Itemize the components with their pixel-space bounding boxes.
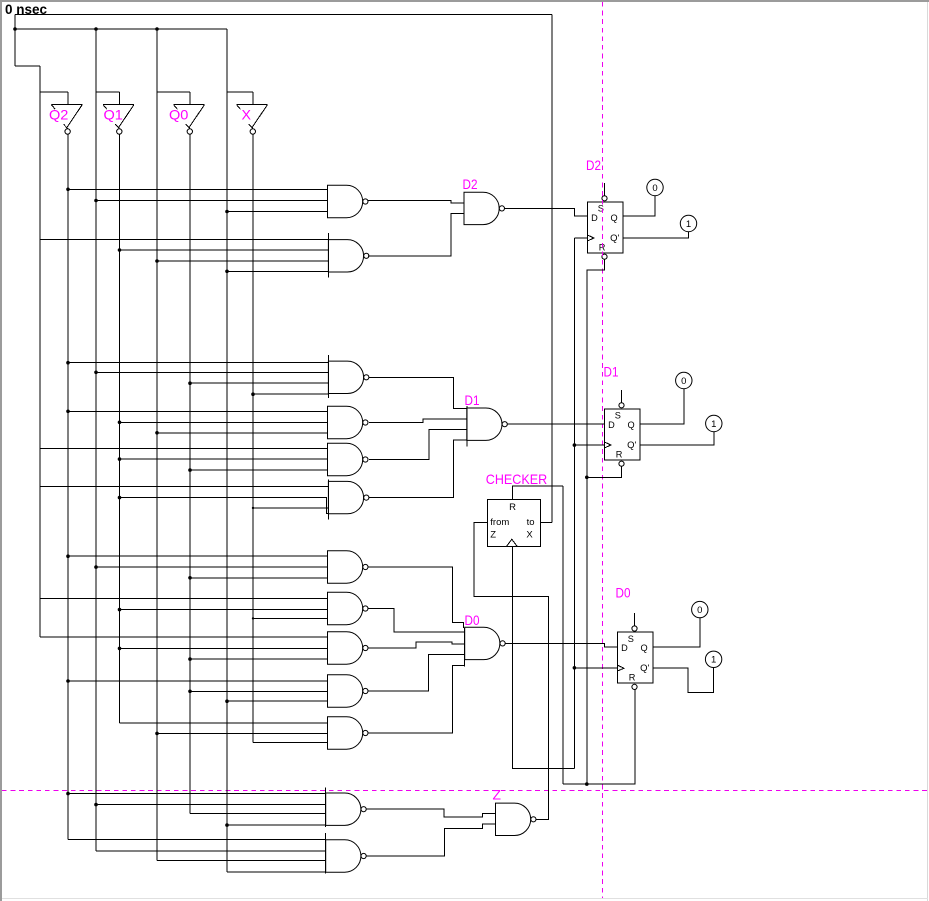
svg-text:R: R — [509, 502, 516, 513]
wire C2 input 1 — [40, 597, 328, 599]
junction — [252, 507, 254, 509]
svg-text:0: 0 — [697, 605, 702, 616]
wire rail X (x227) — [226, 29, 228, 872]
wire flip-flop D0 R down to reset net — [563, 689, 635, 784]
junction — [155, 259, 159, 263]
wire Z1 input 2 — [96, 804, 326, 806]
wire B3 input 2 — [120, 458, 328, 460]
junction — [94, 565, 98, 569]
svg-text:S: S — [628, 634, 634, 644]
NAND gate C1 (D0 group, 3-input) — [328, 551, 369, 583]
svg-text:D2: D2 — [586, 157, 601, 173]
svg-text:to: to — [527, 517, 535, 528]
junction — [188, 657, 192, 661]
NAND gate B2 (D1 group, 3-input) — [328, 406, 369, 438]
svg-text:D0: D0 — [616, 584, 631, 600]
wire Z1 input 4 — [227, 824, 326, 826]
NAND gate B4 (D1 group, 4-input) — [328, 480, 369, 520]
junction — [94, 199, 98, 203]
junction — [225, 699, 229, 703]
wire C4 input 3 — [227, 700, 328, 702]
wire B2 input 3 — [157, 432, 328, 434]
svg-text:X: X — [526, 530, 533, 541]
wire A1 input 3 — [227, 211, 328, 213]
svg-text:Q': Q' — [627, 440, 636, 451]
junction — [66, 554, 70, 558]
svg-text:Q: Q — [611, 213, 618, 223]
D flip-flop D0 — [618, 613, 654, 689]
horizontal dashed cursor line — [2, 790, 927, 792]
junction — [188, 690, 192, 694]
junction — [94, 27, 98, 31]
junction — [155, 732, 159, 736]
wire top rail vertical down to CHECKER to pin (x552) — [551, 15, 553, 523]
wire C5 output to D0 gate input 5 — [368, 665, 465, 733]
wire hook X vertical — [252, 92, 254, 105]
wire C1 input 3 — [190, 577, 328, 579]
wire B2 input 1 — [68, 410, 328, 412]
wire B4 input 2 with jog — [120, 498, 329, 514]
wire CHECKER clock pin to clock rail — [513, 547, 575, 769]
wire C3 input 3 — [190, 658, 328, 660]
probe 1 of D2 — [680, 215, 696, 231]
wire C4 output to D0 gate input 4 — [368, 654, 465, 691]
wire C4 input 2 — [190, 690, 328, 692]
wire B1 input 3 — [190, 382, 328, 384]
wire top rail horizontal — [15, 14, 552, 16]
NAND gate C2 (D0 group, 3-input) — [328, 592, 369, 624]
NAND gate C4 (D0 group, 3-input) — [328, 675, 369, 707]
NAND gate Z output — [496, 803, 537, 835]
probe 1 of D0 — [705, 651, 721, 667]
svg-text:D2: D2 — [463, 176, 478, 192]
wire Z2 input 2 — [96, 850, 326, 852]
wire flip-flop D2 Q-bar to probe 1 — [623, 232, 689, 238]
wire flip-flop D0 Q to probe 0 — [653, 618, 700, 647]
junction — [155, 27, 159, 31]
wire B1 input 2 — [96, 371, 328, 373]
svg-text:Q': Q' — [610, 233, 619, 244]
wire C1 output to D0 gate input 1 — [368, 567, 463, 628]
svg-text:R: R — [629, 673, 636, 683]
wire hook Q0 horizontal — [157, 91, 190, 93]
svg-text:D: D — [591, 213, 598, 223]
wire hook Q1 horizontal — [96, 91, 120, 93]
vertical dashed cursor line — [602, 2, 604, 898]
NAND gate A2 (D2 group, 4-input) — [328, 233, 369, 278]
svg-text:D0: D0 — [465, 612, 480, 628]
wire D1 gate output to flip-flop D1 D input — [507, 423, 604, 425]
junction — [585, 476, 589, 480]
wire Z2 output to Z gate input 2 — [366, 824, 495, 856]
svg-text:D1: D1 — [604, 364, 619, 380]
NAND gate D1 output (4-input) — [467, 406, 508, 447]
wire A2 input 1 — [40, 239, 328, 241]
wire flip-flop D2 clock input — [574, 237, 587, 239]
wire C1 input 1 — [68, 555, 328, 557]
wire CHECKER R pin to reset-check rail — [513, 486, 564, 499]
junction — [225, 270, 229, 274]
junction — [225, 823, 229, 827]
wire B2 output to D1 gate input 2 — [369, 419, 467, 422]
input switch Q1 — [103, 105, 134, 135]
probe 0 of D0 — [692, 601, 708, 617]
svg-text:Q0: Q0 — [169, 107, 189, 123]
NAND gate C5 (D0 group, 3-input) — [328, 717, 369, 749]
svg-text:X: X — [242, 107, 252, 123]
wire Z gate output to CHECKER from pin — [474, 522, 548, 819]
junction — [118, 608, 122, 612]
junction — [252, 617, 254, 619]
junction — [66, 188, 70, 192]
junction — [66, 410, 70, 414]
NAND gate B1 (D1 group, 4-input) — [328, 355, 369, 398]
wire flip-flop D1 Q-bar to probe 1 — [640, 432, 714, 445]
wire A2 input 2 — [120, 249, 329, 251]
wire hook Q1 vertical — [119, 92, 121, 105]
input switch Q2 — [51, 105, 82, 135]
wire C2 output to D0 gate input 2 — [368, 609, 465, 632]
CHECKER box U1 — [488, 499, 541, 546]
input switch Q0 — [174, 105, 205, 135]
wire hook Q0 vertical — [189, 92, 191, 105]
junction — [585, 782, 589, 786]
wire flip-flop D0 Q-bar to probe 1 — [653, 668, 714, 693]
svg-text:1: 1 — [711, 655, 716, 666]
wire C1 input 2 — [96, 566, 328, 568]
junction — [573, 666, 577, 670]
svg-text:Q': Q' — [640, 663, 649, 674]
NAND gate D2 output — [464, 192, 505, 224]
wire A1 input 1 — [68, 188, 328, 190]
wire C3 output to D0 gate input 3 — [368, 642, 465, 648]
wire input distribution horizontal y29 — [15, 28, 227, 30]
junction — [94, 803, 98, 807]
svg-text:D: D — [621, 643, 628, 653]
svg-text:0: 0 — [652, 183, 657, 194]
NAND gate C3 (D0 group, 3-input) — [328, 632, 369, 664]
svg-text:Q: Q — [641, 643, 648, 653]
wire B3 input 3 — [190, 469, 328, 471]
wire top-left vertical — [14, 15, 16, 67]
wire D2 gate output to flip-flop D2 D input — [505, 208, 588, 216]
wire B3 output to D1 gate input 3 — [369, 430, 467, 460]
wire Z1 input 1 — [68, 793, 326, 795]
probe 0 of D2 — [647, 179, 663, 195]
wire rail Q2 (x40) — [39, 66, 41, 637]
wire step to rail Q2 — [15, 65, 40, 67]
junction — [94, 371, 98, 375]
junction — [118, 248, 122, 252]
junction — [66, 679, 70, 683]
wire C4 input 1 — [68, 680, 328, 682]
junction — [155, 431, 159, 435]
svg-text:S: S — [615, 411, 621, 421]
wire B1 input 1 — [68, 362, 328, 364]
junction — [66, 792, 70, 796]
NAND gate A1 (D2 group, 3-input) — [328, 185, 369, 217]
wire rail Q0 (x157) — [156, 29, 158, 861]
junction — [118, 457, 122, 461]
svg-text:CHECKER: CHECKER — [486, 471, 547, 487]
wire B4 output to D1 gate input 4 — [369, 440, 467, 497]
junction — [251, 392, 255, 396]
wire flip-flop D0 clock branch — [574, 667, 617, 669]
NAND gate Z1 (Z group, 4-input) — [326, 788, 367, 827]
wire C5 input 3 — [253, 742, 328, 744]
NAND gate Z2 (Z group, 4-input) — [326, 833, 367, 873]
wire C3 input 2 — [120, 647, 328, 649]
wire reset-check rail vertical (x563) — [562, 486, 564, 784]
wire clock rail vertical (x574) — [573, 238, 575, 768]
wire B1 output to D1 gate input 1 — [369, 377, 467, 408]
wire C5 input 1 — [120, 722, 328, 724]
wire flip-flop D1 clock branch — [574, 444, 604, 446]
svg-text:Q: Q — [628, 420, 635, 430]
NAND gate D0 output (5-input) — [465, 627, 506, 666]
input switch X — [237, 105, 268, 135]
wire D0 gate output to flip-flop D0 D input — [505, 643, 617, 647]
wire flip-flop D1 R to reset rail — [587, 466, 622, 477]
svg-text:0: 0 — [681, 376, 686, 387]
wire A2 input 3 — [157, 260, 328, 262]
wire C5 input 2 — [157, 732, 328, 734]
svg-text:Q2: Q2 — [49, 107, 69, 123]
wire rail X-inverted (x253) — [252, 134, 254, 742]
svg-text:Q1: Q1 — [104, 107, 124, 123]
wire C2 input 3 — [253, 617, 328, 619]
wire rail Q0-inverted (x190) — [189, 134, 191, 813]
wire A2 output to D2 gate input 2 — [368, 214, 464, 256]
svg-text:from: from — [490, 517, 509, 528]
wire rail Q1 (x96) — [95, 29, 97, 851]
wire hook X horizontal — [227, 91, 253, 93]
svg-text:D: D — [608, 420, 615, 430]
wire Z2 input 1 — [68, 838, 326, 840]
wire CHECKER to pin — [541, 522, 553, 524]
wire B3 input 1 — [40, 447, 328, 449]
probe 0 of D1 — [676, 372, 692, 388]
wire B1 input 4 — [253, 393, 328, 395]
junction — [573, 443, 577, 447]
wire A2 input 4 — [227, 270, 328, 272]
wire Z1 output to Z gate input 1 — [366, 809, 495, 817]
junction — [118, 647, 122, 651]
wire Z2 input 3 — [157, 860, 326, 862]
wire flip-flop D2 R to reset rail (x586) — [587, 259, 605, 784]
D flip-flop D2 — [588, 183, 624, 259]
junction — [66, 361, 70, 365]
wire rail Q2-inverted (x68) — [67, 134, 69, 839]
wire B4 input 1 — [40, 486, 328, 488]
svg-text:0 nsec: 0 nsec — [5, 2, 48, 17]
svg-text:R: R — [616, 449, 623, 459]
junction — [188, 381, 192, 385]
junction — [225, 210, 229, 214]
wire rail Q1-inverted (x119) — [119, 134, 121, 723]
wire C2 input 2 — [120, 609, 328, 611]
junction — [118, 421, 122, 425]
wire B4 input 3 — [253, 507, 328, 509]
wire B2 input 2 — [120, 421, 328, 423]
wire hook Q2 horizontal — [40, 91, 68, 93]
wire A1 input 2 — [96, 200, 328, 202]
svg-text:1: 1 — [686, 219, 691, 230]
svg-text:D1: D1 — [465, 392, 480, 408]
wire C3 input 1 — [40, 636, 328, 638]
D flip-flop D1 — [605, 390, 641, 466]
wire A1 output to D2 gate input 1 — [368, 201, 464, 204]
NAND gate B3 (D1 group, 3-input) — [328, 443, 369, 475]
svg-text:Z: Z — [493, 786, 502, 802]
junction — [118, 496, 122, 500]
svg-text:1: 1 — [711, 419, 716, 430]
wire flip-flop D1 Q to probe 0 — [640, 389, 684, 424]
wire Z1 input 3 — [190, 813, 326, 815]
wire hook Q2 vertical — [67, 92, 69, 105]
wire flip-flop D2 Q to probe 0 — [623, 196, 655, 216]
junction — [13, 27, 17, 31]
probe 1 of D1 — [706, 415, 722, 431]
svg-text:Z: Z — [490, 530, 496, 541]
junction — [188, 468, 192, 472]
junction — [188, 576, 192, 580]
wire Z2 input 4 — [227, 871, 326, 873]
